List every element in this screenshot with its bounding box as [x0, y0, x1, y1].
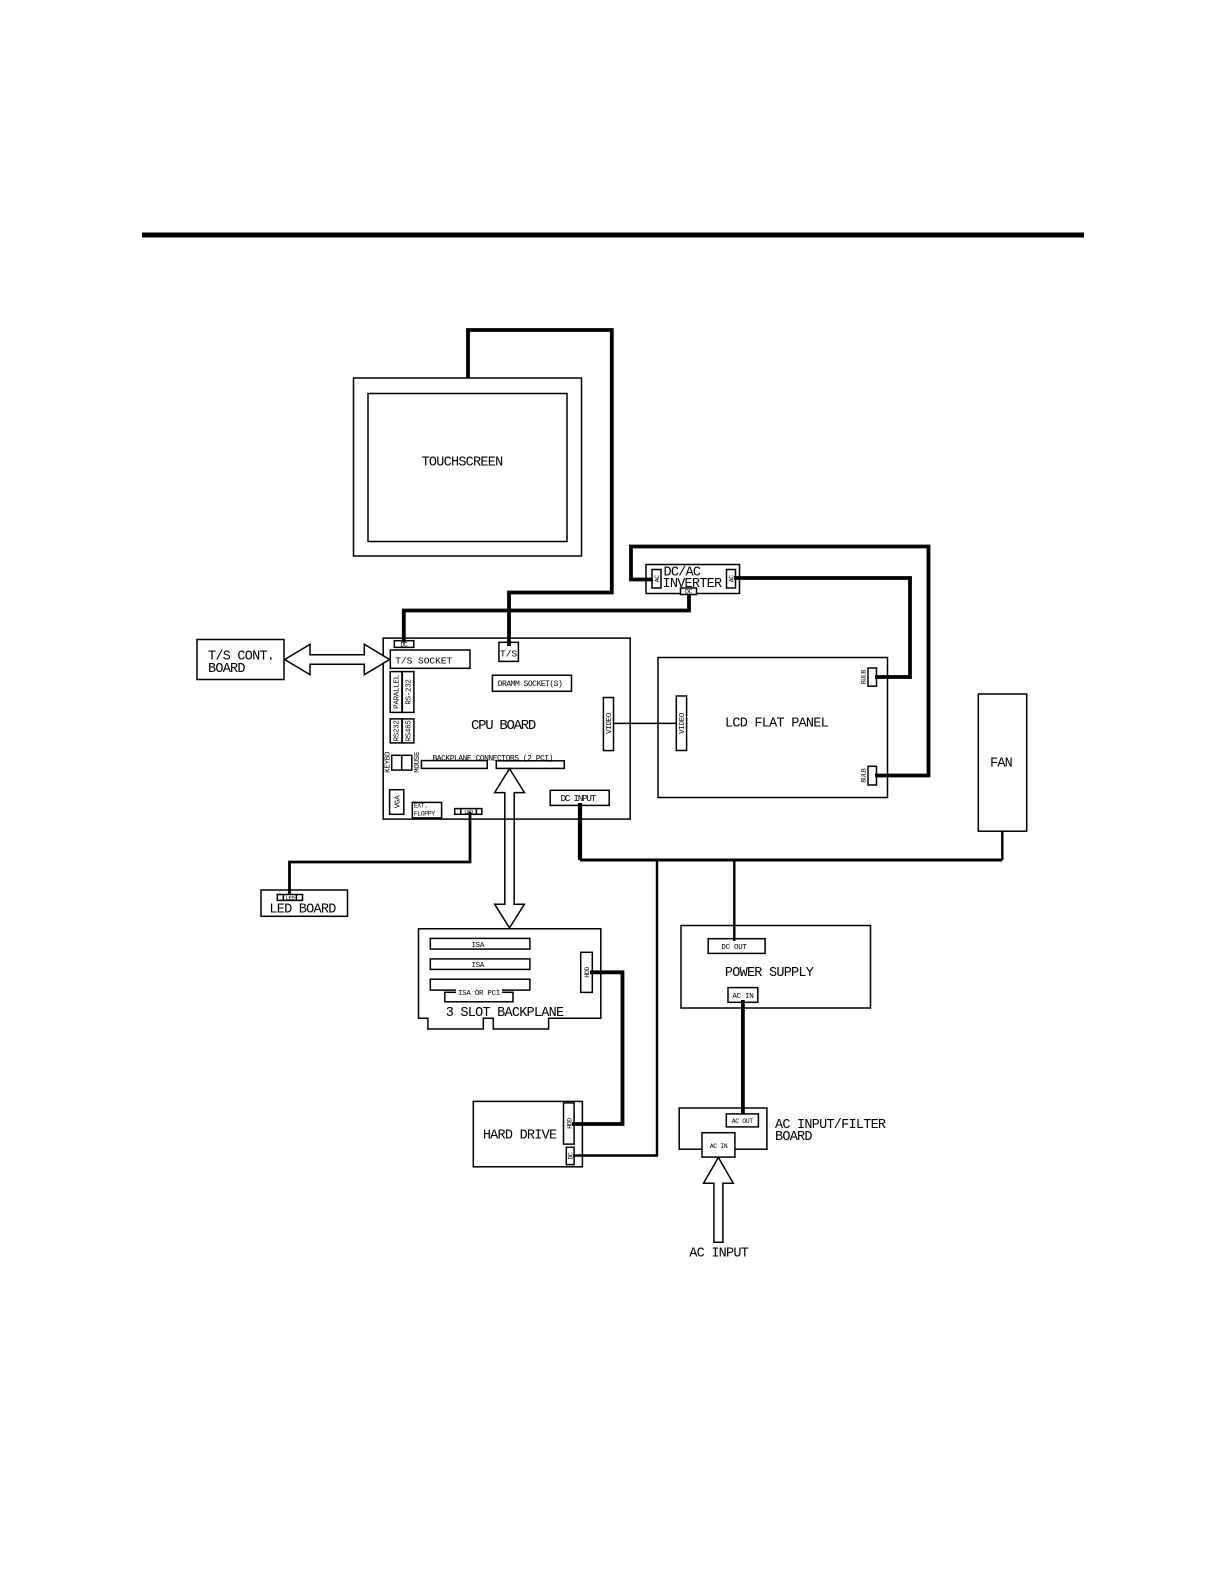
cpu DC input: [550, 790, 609, 805]
svg-text:DC OUT: DC OUT: [721, 944, 747, 952]
inverter DC connector bottom: [681, 588, 697, 595]
backplane connector right: [496, 761, 564, 769]
svg-text:BOARD: BOARD: [775, 1130, 812, 1145]
top rule: [142, 233, 1084, 238]
lcd flat panel: [658, 658, 888, 798]
3 slot backplane outline: [419, 929, 601, 1029]
touchscreen inner: [368, 394, 567, 542]
svg-text:LCD FLAT PANEL: LCD FLAT PANEL: [725, 716, 829, 731]
backplane HDD connector: [581, 952, 593, 992]
svg-text:T/S SOCKET: T/S SOCKET: [395, 656, 452, 667]
svg-text:HARD DRIVE: HARD DRIVE: [483, 1129, 557, 1144]
svg-text:DRAMM SOCKET(S): DRAMM SOCKET(S): [498, 680, 563, 689]
filter AC IN connector: [702, 1133, 735, 1157]
ac input/filter board: [679, 1108, 767, 1149]
cpu VGA port: [390, 790, 404, 815]
backplane ISA slot 1: [430, 938, 530, 949]
svg-text:ISA: ISA: [471, 942, 484, 950]
svg-text:CPU BOARD: CPU BOARD: [471, 718, 536, 734]
psu DC OUT connector: [708, 939, 765, 954]
cpu board: [383, 638, 630, 819]
wire hard drive DC drop: [573, 860, 657, 1156]
wire cpu LED to led board: [290, 812, 471, 895]
inverter AC connector right: [727, 570, 736, 589]
svg-text:DC INPUT: DC INPUT: [560, 793, 596, 804]
backplane ISA slot 2: [430, 959, 530, 970]
cpu T/S connector: [499, 642, 519, 661]
dc/ac inverter U-inv: [646, 565, 740, 594]
led board: [261, 890, 348, 916]
hard drive DC connector: [566, 1147, 574, 1164]
wire dc input down: [578, 803, 582, 860]
svg-text:3 SLOT BACKPLANE: 3 SLOT BACKPLANE: [446, 1006, 564, 1021]
cpu rs-232 port: [402, 672, 414, 713]
wire psu AC IN to filter AC OUT: [741, 1000, 745, 1115]
lcd BULB connector top: [868, 668, 877, 686]
psu AC IN connector: [728, 988, 758, 1003]
svg-text:RS-232: RS-232: [406, 679, 414, 704]
filter AC OUT connector: [726, 1114, 758, 1127]
backplane connector left: [421, 761, 487, 769]
svg-text:EXT.: EXT.: [414, 803, 428, 810]
inverter AC connector left: [652, 570, 661, 589]
cpu LED connector: [455, 809, 482, 815]
svg-text:ISA: ISA: [471, 962, 484, 970]
wire inverter AC right to top bulb: [734, 578, 910, 677]
backplane PCI slot: [445, 992, 513, 1002]
ac input arrow: [704, 1158, 734, 1243]
svg-text:LED BOARD: LED BOARD: [269, 903, 336, 918]
cpu board arrow (vertical, behind cpu rect): [495, 769, 525, 928]
cpu T/S socket: [390, 650, 470, 668]
power supply: [681, 926, 871, 1009]
cpu DC connector: [394, 641, 414, 648]
cpu ext. floppy: [412, 802, 441, 818]
wire psu DC OUT drop: [733, 860, 735, 941]
svg-text:TOUCHSCREEN: TOUCHSCREEN: [422, 456, 504, 471]
wire backplane HDD to hard drive: [572, 972, 623, 1124]
cpu VIDEO port: [603, 698, 613, 751]
svg-text:RS485: RS485: [406, 720, 414, 742]
ts double arrow: [285, 644, 390, 674]
svg-text:POWER SUPPLY: POWER SUPPLY: [725, 966, 814, 981]
backplane ISA-or-PCI slot: [430, 979, 530, 990]
svg-text:VIDEO: VIDEO: [679, 712, 687, 734]
lcd VIDEO connector: [676, 696, 686, 751]
wire dc rail: [580, 859, 1002, 862]
wire video link: [614, 722, 677, 724]
wire inverter AC left loop to bottom bulb: [631, 547, 929, 776]
cpu rs485 port: [402, 719, 414, 743]
svg-text:AC IN: AC IN: [732, 993, 753, 1001]
svg-text:RS232: RS232: [394, 720, 402, 741]
wire touchscreen to T/S conn: [468, 330, 612, 646]
svg-text:BULB: BULB: [860, 768, 867, 783]
svg-text:PARALLEL: PARALLEL: [394, 674, 402, 708]
wire cpu DC to inverter DC: [404, 594, 689, 643]
svg-text:AC OUT: AC OUT: [732, 1118, 754, 1125]
wire fan drop: [1001, 831, 1003, 860]
svg-text:VIDEO: VIDEO: [606, 712, 614, 734]
hdd connector: [564, 1103, 575, 1144]
svg-text:LED: LED: [286, 895, 296, 902]
svg-text:BULB: BULB: [860, 670, 867, 685]
svg-text:AC: AC: [654, 575, 661, 583]
lcd BULB connector bottom: [868, 766, 877, 785]
svg-text:VGA: VGA: [394, 795, 402, 808]
led board connector: [277, 895, 302, 901]
fan: [978, 694, 1026, 831]
svg-text:FLOPPY: FLOPPY: [414, 811, 436, 818]
svg-text:AC IN: AC IN: [710, 1143, 728, 1150]
touchscreen outer: [354, 378, 582, 556]
svg-text:BACKPLANE CONNECTORS (2 PCI): BACKPLANE CONNECTORS (2 PCI): [432, 754, 552, 763]
cpu rs232 port: [390, 719, 402, 743]
svg-text:T/S: T/S: [500, 649, 517, 660]
cpu DRAMM sockets: [492, 675, 571, 691]
svg-text:BOARD: BOARD: [208, 662, 245, 677]
svg-text:FAN: FAN: [990, 757, 1013, 772]
keybd/mouse connector: [392, 755, 412, 770]
T/S cont. board: [197, 640, 284, 680]
svg-text:ISA OR PCI: ISA OR PCI: [458, 990, 500, 998]
hard drive: [473, 1101, 582, 1166]
svg-text:AC INPUT: AC INPUT: [689, 1246, 748, 1261]
cpu parallel port: [390, 672, 402, 713]
